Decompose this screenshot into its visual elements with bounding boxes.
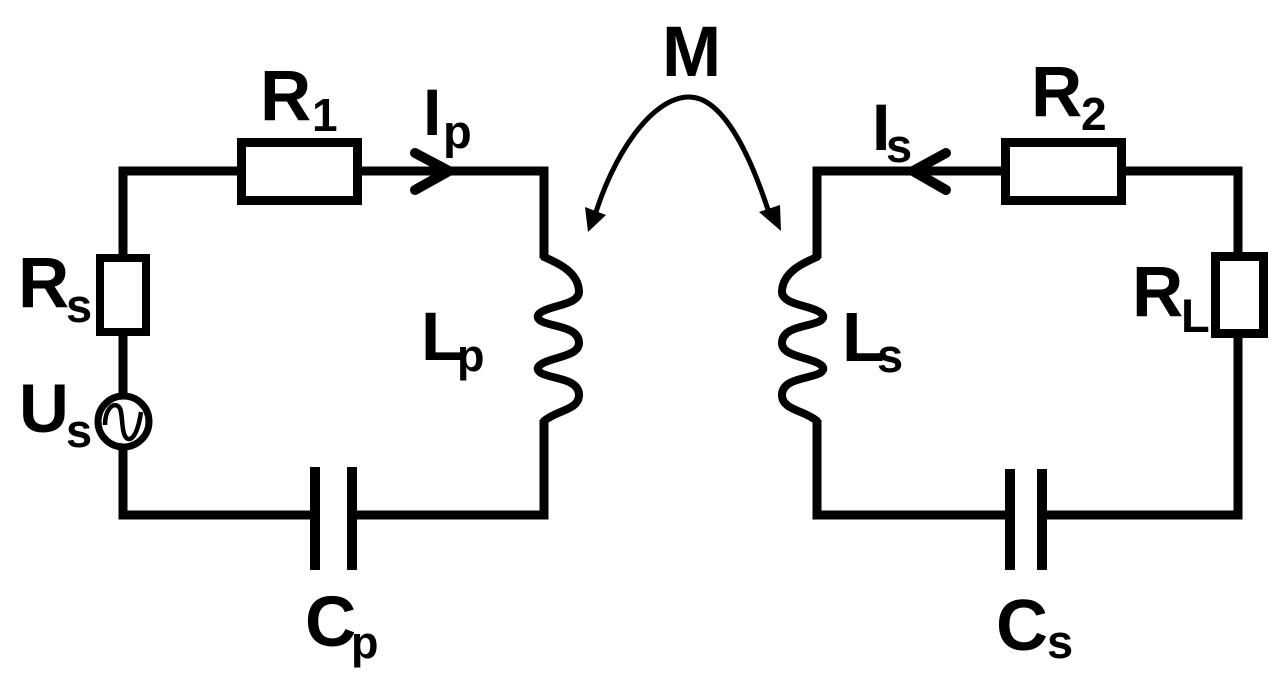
svg-text:p: p xyxy=(351,617,379,668)
label Us xyxy=(19,370,92,457)
svg-text:C: C xyxy=(996,586,1048,666)
svg-text:s: s xyxy=(66,279,92,332)
wire xyxy=(123,171,237,254)
svg-text:p: p xyxy=(457,330,485,381)
wire xyxy=(1126,171,1238,252)
resistor R2 xyxy=(1006,143,1122,201)
wire xyxy=(357,420,544,515)
current arrow Ip xyxy=(415,153,449,190)
svg-text:M: M xyxy=(662,13,721,92)
capacitor Cp xyxy=(315,467,352,570)
label RL xyxy=(1132,253,1210,342)
label Is xyxy=(872,90,912,172)
wire xyxy=(119,332,128,394)
svg-text:L: L xyxy=(1181,289,1210,342)
svg-text:s: s xyxy=(66,404,92,457)
svg-text:I: I xyxy=(423,75,441,149)
svg-text:s: s xyxy=(1047,615,1073,668)
resistor RL xyxy=(1216,257,1264,334)
svg-text:C: C xyxy=(305,583,356,662)
wire xyxy=(1047,334,1238,515)
inductor Lp xyxy=(538,257,579,421)
source Us xyxy=(98,396,149,447)
label R1 xyxy=(260,57,338,141)
svg-text:U: U xyxy=(19,370,69,447)
wire xyxy=(817,171,1001,258)
mutual inductance arrow M xyxy=(585,97,781,232)
wire xyxy=(362,171,544,258)
label Cp xyxy=(305,583,379,668)
label Ip xyxy=(423,75,472,158)
resistor R1 xyxy=(242,143,358,201)
label Rs xyxy=(18,244,92,332)
label Ls xyxy=(842,298,903,382)
svg-text:R: R xyxy=(1031,53,1082,132)
svg-text:p: p xyxy=(443,105,472,158)
svg-text:s: s xyxy=(886,119,912,172)
capacitor Cs xyxy=(1010,469,1042,570)
current arrow Is xyxy=(913,153,946,190)
svg-text:R: R xyxy=(260,57,311,136)
label M xyxy=(662,13,721,92)
resistor Rs xyxy=(100,258,146,332)
wire xyxy=(817,420,1005,515)
svg-text:2: 2 xyxy=(1081,88,1107,140)
label Lp xyxy=(421,298,485,381)
label R2 xyxy=(1031,53,1107,140)
label Cs xyxy=(996,586,1073,668)
inductor Ls xyxy=(782,257,823,421)
svg-text:R: R xyxy=(1132,253,1183,332)
wire xyxy=(123,447,310,515)
svg-text:1: 1 xyxy=(312,89,338,141)
svg-text:s: s xyxy=(877,329,903,382)
svg-text:R: R xyxy=(18,244,69,323)
